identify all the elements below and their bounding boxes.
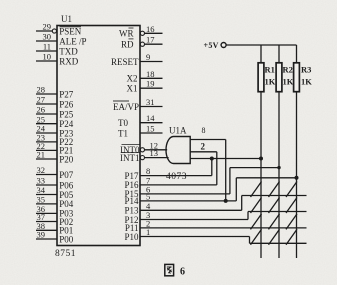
svg-text:19: 19 xyxy=(146,79,155,89)
svg-text:28: 28 xyxy=(37,85,46,95)
svg-text:R1: R1 xyxy=(265,64,275,74)
svg-text:RXD: RXD xyxy=(59,56,79,66)
svg-text:15: 15 xyxy=(146,124,155,134)
svg-text:6: 6 xyxy=(180,267,185,278)
svg-text:X1: X1 xyxy=(127,84,138,94)
svg-text:WR: WR xyxy=(119,29,134,39)
svg-text:TXD: TXD xyxy=(59,46,78,56)
svg-text:+5V: +5V xyxy=(204,41,219,50)
svg-text:39: 39 xyxy=(37,230,46,240)
svg-text:1K: 1K xyxy=(283,76,294,86)
svg-text:13: 13 xyxy=(150,148,159,158)
svg-text:9: 9 xyxy=(146,52,150,62)
svg-text:PSEN: PSEN xyxy=(59,26,82,36)
svg-text:U1A: U1A xyxy=(169,126,187,136)
svg-text:18: 18 xyxy=(146,69,155,79)
svg-text:1: 1 xyxy=(146,227,150,237)
svg-text:X2: X2 xyxy=(127,74,138,84)
svg-text:ALE /P: ALE /P xyxy=(59,36,86,46)
svg-text:4073: 4073 xyxy=(166,172,187,182)
svg-text:P06: P06 xyxy=(59,180,74,190)
svg-text:P04: P04 xyxy=(59,199,74,209)
svg-text:17: 17 xyxy=(146,35,155,45)
svg-text:32: 32 xyxy=(37,165,46,175)
svg-text:P10: P10 xyxy=(124,232,139,242)
svg-text:29: 29 xyxy=(43,22,52,32)
svg-text:P25: P25 xyxy=(59,109,74,119)
svg-text:INT1: INT1 xyxy=(120,153,140,163)
svg-text:R2: R2 xyxy=(283,64,293,74)
svg-text:R3: R3 xyxy=(301,64,311,74)
svg-text:11: 11 xyxy=(43,42,51,52)
svg-text:14: 14 xyxy=(146,113,155,123)
svg-text:EA/VP: EA/VP xyxy=(113,102,139,112)
svg-text:27: 27 xyxy=(37,95,46,105)
svg-text:1K: 1K xyxy=(265,76,276,86)
svg-text:31: 31 xyxy=(146,97,155,107)
svg-text:P26: P26 xyxy=(59,99,74,109)
svg-text:21: 21 xyxy=(37,150,46,160)
svg-text:RD: RD xyxy=(121,40,134,50)
svg-text:1K: 1K xyxy=(301,76,312,86)
svg-text:16: 16 xyxy=(146,24,155,34)
svg-text:P00: P00 xyxy=(59,234,74,244)
svg-text:8751: 8751 xyxy=(55,249,76,259)
svg-text:RESET: RESET xyxy=(111,57,139,67)
svg-text:8: 8 xyxy=(202,126,206,135)
svg-text:35: 35 xyxy=(37,195,46,205)
svg-text:30: 30 xyxy=(43,32,52,42)
svg-text:T1: T1 xyxy=(118,128,128,138)
svg-text:26: 26 xyxy=(37,105,46,115)
svg-text:10: 10 xyxy=(43,52,52,62)
svg-text:T0: T0 xyxy=(118,118,128,128)
svg-text:P07: P07 xyxy=(59,170,74,180)
svg-text:33: 33 xyxy=(37,176,46,186)
svg-text:U1: U1 xyxy=(61,14,72,24)
svg-text:P27: P27 xyxy=(59,89,74,99)
svg-text:2: 2 xyxy=(201,142,206,152)
svg-text:P20: P20 xyxy=(59,154,74,164)
